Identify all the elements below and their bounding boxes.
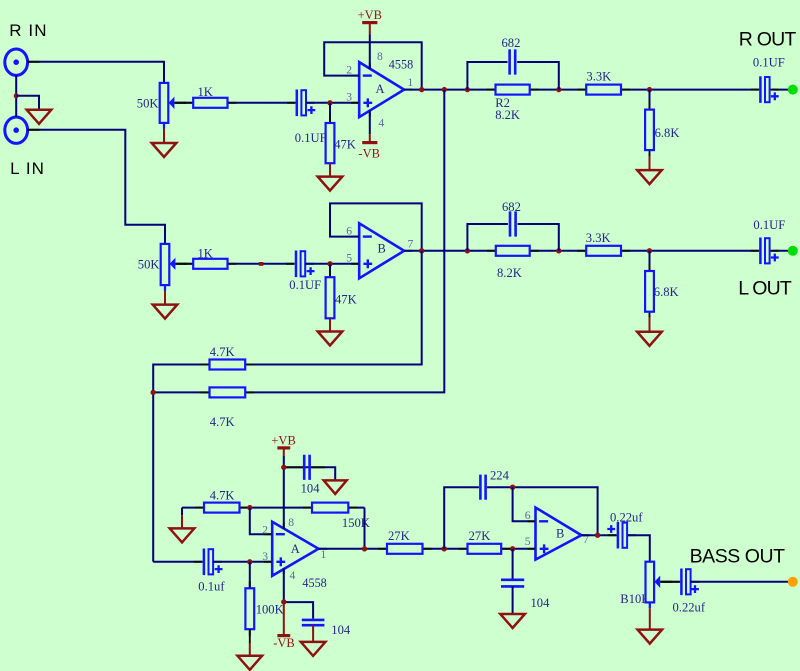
svg-text:B: B — [378, 242, 386, 256]
svg-text:5: 5 — [346, 251, 352, 264]
svg-text:0.1UF: 0.1UF — [295, 131, 327, 145]
svg-text:150K: 150K — [342, 516, 370, 530]
svg-text:-VB: -VB — [358, 147, 380, 161]
svg-text:3.3K: 3.3K — [586, 231, 611, 245]
svg-text:-VB: -VB — [273, 636, 295, 650]
svg-text:100K: 100K — [256, 603, 284, 617]
svg-text:682: 682 — [502, 200, 521, 214]
svg-text:27K: 27K — [469, 529, 491, 543]
svg-text:5: 5 — [525, 535, 531, 548]
svg-text:0.22uf: 0.22uf — [673, 600, 706, 614]
svg-text:6.8K: 6.8K — [654, 285, 679, 299]
svg-text:0.22uf: 0.22uf — [610, 510, 643, 524]
svg-text:0.1UF: 0.1UF — [289, 278, 321, 292]
svg-text:R OUT: R OUT — [739, 29, 797, 51]
svg-text:4.7K: 4.7K — [210, 415, 235, 429]
svg-text:1K: 1K — [198, 247, 213, 261]
svg-text:0.1UF: 0.1UF — [753, 218, 785, 232]
svg-text:8.2K: 8.2K — [495, 108, 520, 122]
svg-text:104: 104 — [531, 596, 551, 610]
svg-text:3: 3 — [346, 90, 352, 103]
svg-text:4558: 4558 — [302, 576, 326, 590]
svg-text:4558: 4558 — [389, 58, 413, 72]
svg-text:+VB: +VB — [271, 433, 295, 447]
svg-text:A: A — [291, 542, 300, 556]
svg-text:8.2K: 8.2K — [497, 266, 522, 280]
svg-text:2: 2 — [262, 524, 268, 537]
svg-text:4.7K: 4.7K — [210, 345, 235, 359]
svg-text:6: 6 — [346, 225, 352, 238]
svg-text:L IN: L IN — [10, 159, 45, 178]
svg-text:50K: 50K — [137, 97, 159, 111]
svg-text:R IN: R IN — [9, 21, 47, 40]
svg-text:104: 104 — [331, 623, 351, 637]
svg-text:50K: 50K — [138, 258, 160, 272]
svg-text:104: 104 — [301, 482, 321, 496]
svg-text:47K: 47K — [334, 138, 356, 152]
svg-text:8: 8 — [288, 516, 294, 529]
svg-text:2: 2 — [346, 63, 352, 76]
svg-text:L OUT: L OUT — [738, 277, 792, 299]
svg-text:6: 6 — [525, 509, 531, 522]
svg-text:4.7K: 4.7K — [210, 489, 235, 503]
svg-text:4: 4 — [290, 569, 296, 582]
svg-text:682: 682 — [502, 36, 521, 50]
svg-text:B: B — [556, 527, 564, 541]
svg-text:1: 1 — [321, 548, 327, 561]
svg-text:8: 8 — [377, 50, 383, 63]
svg-text:A: A — [376, 82, 385, 96]
svg-text:3.3K: 3.3K — [586, 70, 611, 84]
svg-text:3: 3 — [262, 550, 268, 563]
svg-text:1K: 1K — [198, 85, 213, 99]
svg-text:BASS OUT: BASS OUT — [690, 545, 786, 567]
svg-text:0.1UF: 0.1UF — [753, 56, 785, 70]
svg-text:1: 1 — [408, 76, 414, 89]
svg-text:47K: 47K — [335, 293, 357, 307]
svg-text:0.1uf: 0.1uf — [198, 580, 225, 594]
svg-text:+VB: +VB — [358, 8, 382, 22]
svg-text:7: 7 — [408, 238, 414, 251]
svg-text:27K: 27K — [388, 529, 410, 543]
svg-text:224: 224 — [490, 469, 510, 483]
svg-text:4: 4 — [379, 116, 385, 129]
svg-text:6.8K: 6.8K — [655, 126, 680, 140]
